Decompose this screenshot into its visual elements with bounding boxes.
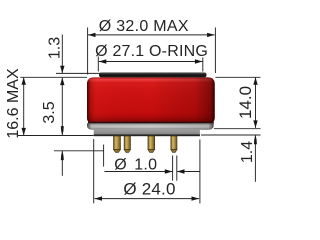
arrow Ø27.1 right bbox=[195, 59, 203, 63]
shoulder reference line left (o-ring plane) bbox=[20, 76, 87, 78]
base tier 2 (lower flange lip, seating) bbox=[94, 130, 200, 136]
tier2-bottom reference line right (1.4 bottom) bbox=[201, 134, 261, 136]
dim Ø32.0 ext line right bbox=[214, 28, 216, 74]
svg-text:14.0: 14.0 bbox=[236, 86, 255, 119]
shoulder reference line right bbox=[215, 76, 260, 78]
dim Ø27.1 ext line left bbox=[97, 57, 99, 72]
svg-text:1.3: 1.3 bbox=[47, 37, 64, 59]
dim Ø24 line bbox=[95, 198, 200, 200]
arrow Ø27.1 left bbox=[99, 59, 107, 63]
dim Ø27.1 ext line right bbox=[202, 58, 204, 72]
dim 14.0 line bbox=[255, 77, 257, 128]
dim 1.3 / 3.5 leader line middle bbox=[61, 78, 63, 135]
svg-text:Ø 24.0: Ø 24.0 bbox=[123, 180, 175, 199]
arrow 1.3 up (below shoulder line) bbox=[60, 78, 64, 86]
arrow 14.0 down bbox=[253, 120, 257, 128]
cap top rim (o-ring recess band) bbox=[99, 72, 207, 77]
svg-text:Ø 1.0: Ø 1.0 bbox=[114, 157, 157, 174]
tier1-bottom reference line right (14.0 bottom) bbox=[214, 128, 261, 130]
dim 1.3 / 3.5 leader line upper bbox=[61, 35, 63, 73]
vertical tick at left end of pin-bottom reference bbox=[103, 145, 105, 167]
arrow Ø32 right bbox=[207, 33, 215, 37]
dim 3.5 leader line lower bbox=[61, 151, 63, 176]
arrow 3.5 down (above flange-bottom line) bbox=[61, 126, 64, 135]
arrow 1.3 down (above rim line) bbox=[60, 66, 64, 74]
pin 3 bbox=[148, 136, 155, 152]
arrow Ø1.0 pointing right bbox=[165, 169, 173, 173]
dim Ø1.0 line right segment bbox=[177, 171, 200, 173]
dim Ø32.0 line bbox=[88, 34, 215, 36]
arrow 14.0 up bbox=[253, 77, 257, 85]
dim Ø1.0 ext line left (pin4 left edge) bbox=[172, 156, 174, 181]
dim Ø27.1 line bbox=[99, 61, 203, 63]
arrow Ø24 left bbox=[95, 196, 103, 200]
arrow Ø32 left bbox=[88, 33, 96, 37]
svg-text:Ø 32.0 MAX: Ø 32.0 MAX bbox=[99, 18, 189, 35]
dim Ø1.0 ext line right (pin4 right edge) bbox=[176, 156, 178, 181]
svg-text:16.6 MAX: 16.6 MAX bbox=[5, 68, 22, 139]
dim 16.6 line bbox=[23, 77, 25, 135]
arrow 1.4 up (below tier2 line) bbox=[254, 135, 257, 144]
red/base junction line bbox=[88, 122, 214, 124]
pin 2 bbox=[124, 136, 130, 152]
svg-text:1.4: 1.4 bbox=[239, 141, 256, 163]
cap rim-top reference line (1.3 top) bbox=[56, 72, 100, 74]
arrow 16.6 down bbox=[22, 128, 26, 135]
pin 1 bbox=[114, 136, 121, 152]
sensor cap body (red) bbox=[87, 77, 215, 123]
dim 1.4 leader line bbox=[254, 135, 256, 182]
dim Ø24 ext line right bbox=[199, 140, 201, 204]
arrow Ø24 right bbox=[192, 196, 200, 200]
pin 4 bbox=[171, 136, 177, 152]
dim Ø24 ext line left bbox=[93, 139, 95, 203]
dim Ø1.0 line left segment bbox=[104, 171, 172, 173]
dim Ø32.0 ext line left bbox=[87, 28, 89, 75]
arrow Ø1.0 pointing left bbox=[177, 169, 185, 173]
arrow 16.6 up bbox=[22, 77, 26, 85]
svg-text:Ø 27.1 O-RING: Ø 27.1 O-RING bbox=[95, 43, 208, 60]
svg-text:3.5: 3.5 bbox=[41, 101, 58, 123]
flange-bottom reference line left bbox=[17, 135, 93, 137]
arrow 3.5 up (below pin-bottom line) bbox=[61, 151, 64, 160]
base tier 1 (upper flange) bbox=[87, 123, 214, 129]
pin-bottom reference line bbox=[54, 150, 104, 152]
